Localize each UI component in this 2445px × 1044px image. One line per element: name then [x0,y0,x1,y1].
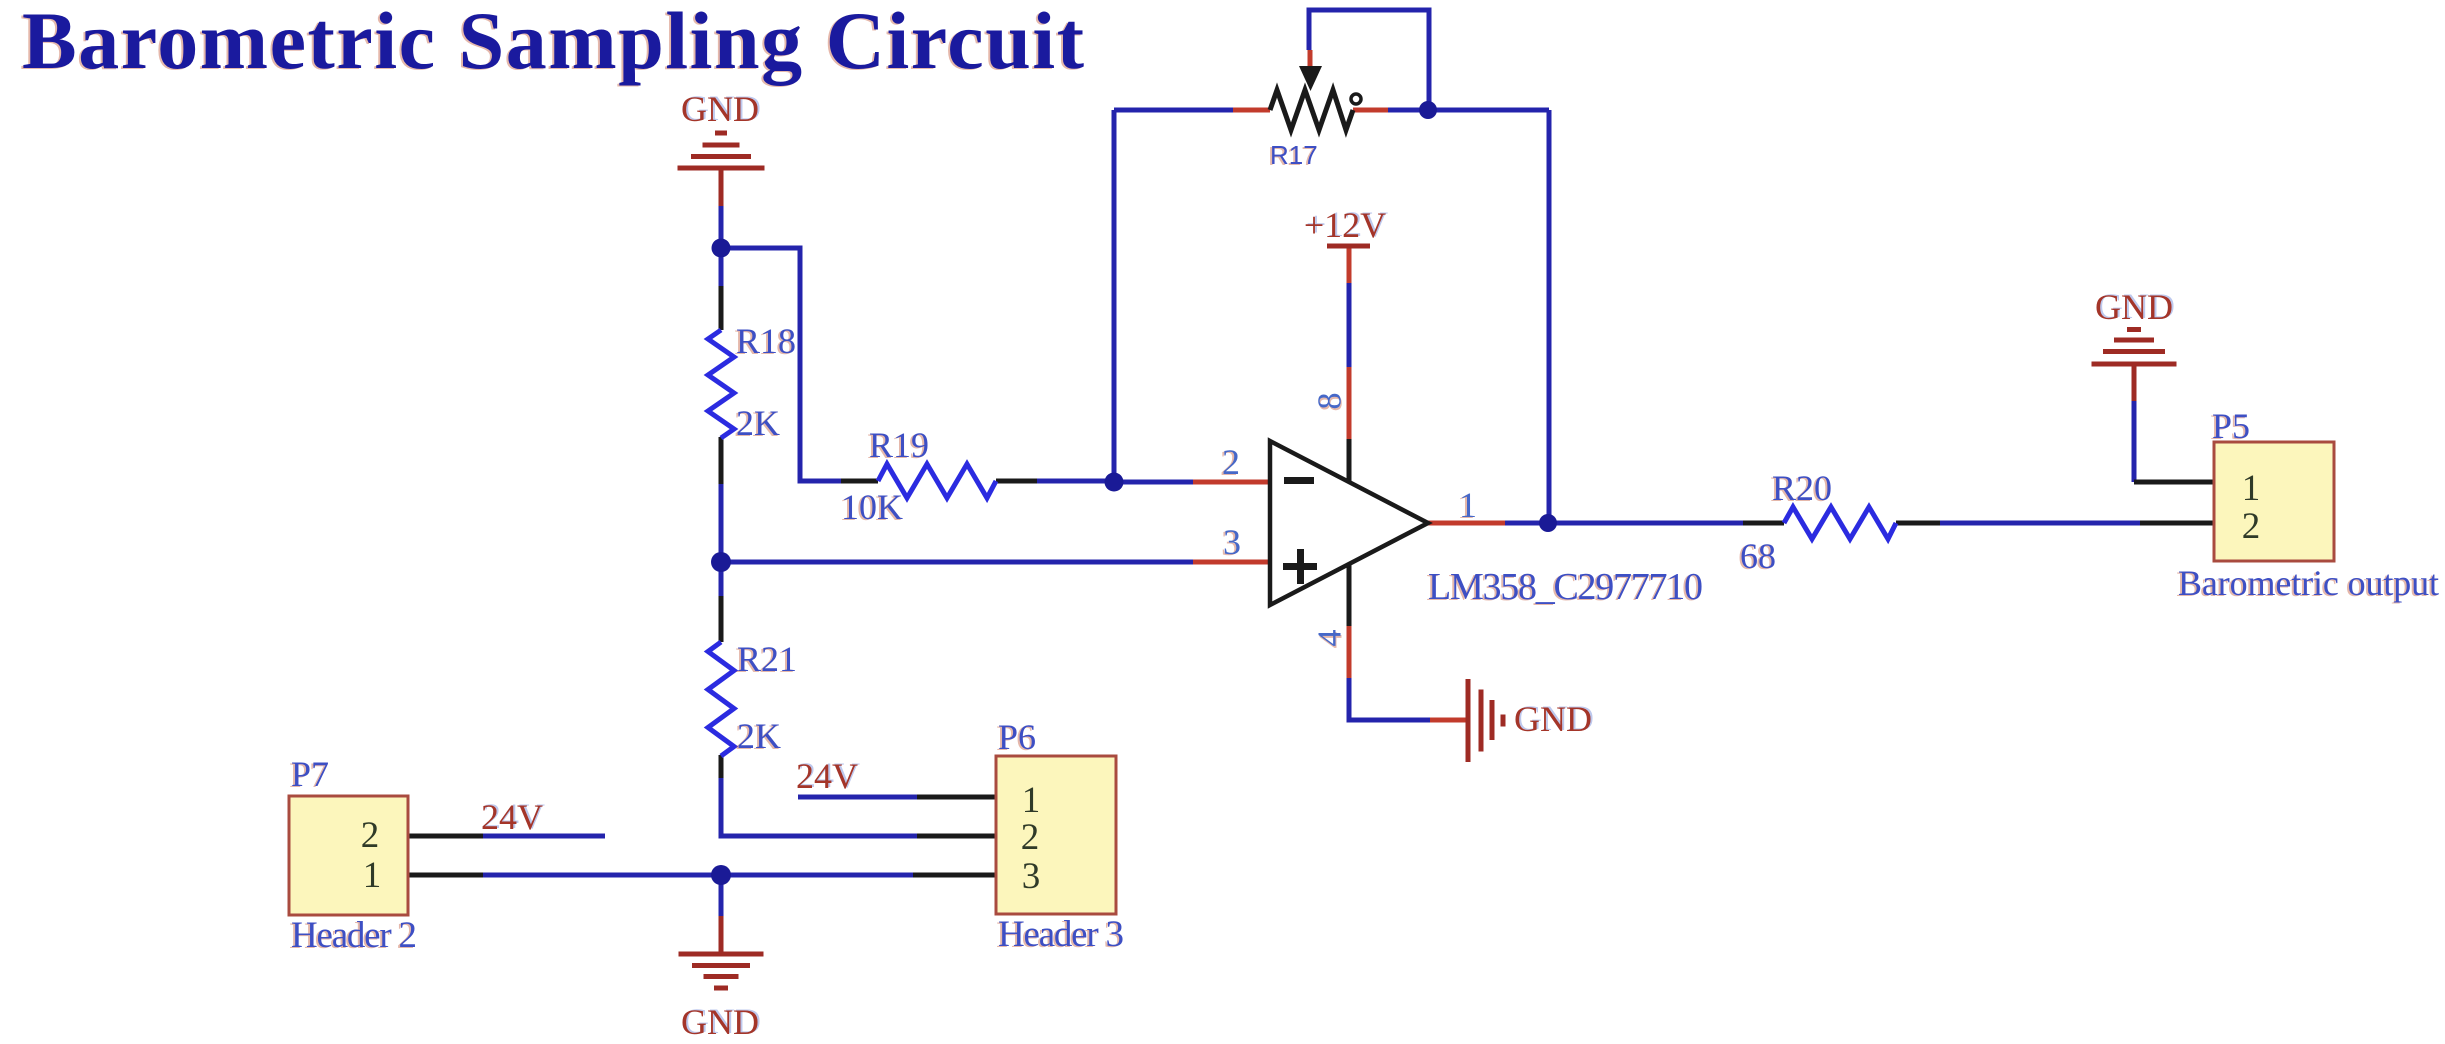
ground GND right [2092,330,2177,402]
wire P7 pin2 24V stub [483,834,605,839]
label P6 [996,717,1036,758]
svg-text:2: 2 [361,815,380,856]
pin number 1 P7 [363,855,382,896]
pin stub black R21 top [719,596,724,642]
resistor R19 10K zigzag [878,464,996,498]
pin stub red op-amp pin2 [1193,480,1270,485]
label R18 [734,321,796,362]
svg-text:GND: GND [2095,287,2173,327]
connector P7 box [289,796,408,915]
wire junction A to corner [721,248,841,481]
wire R19 right to node B [1037,479,1118,484]
svg-text:R18: R18 [736,321,796,361]
ground GND top [678,133,765,206]
label LM358_C2977710 [1426,566,1703,609]
svg-text:Header 3: Header 3 [998,914,1124,955]
pin stub red R17 left [1233,108,1270,113]
pin stub red op-amp pin3 [1193,560,1270,565]
svg-text:Barometric Sampling Circuit: Barometric Sampling Circuit [22,0,1084,86]
potentiometer R17 terminal circle [1351,94,1361,104]
pin stub red op-amp GND [1430,718,1466,723]
junction node A [712,239,731,258]
svg-text:68: 68 [1740,536,1776,576]
label P7 [289,754,329,795]
wire R18 bottom to node C [719,437,724,598]
svg-text:R20: R20 [1772,468,1832,508]
svg-text:2: 2 [1222,442,1240,482]
wire top GND stem blue [719,206,724,252]
pin stub black P6 pin1 [917,795,996,800]
label R20 [1770,468,1832,509]
pin number 1 P6 [1022,780,1041,821]
label 10K R19 [839,487,903,528]
ground GND op-amp sideways [1468,679,1503,762]
label Barometric output [2176,563,2439,604]
pin stub black R21 bottom [719,755,724,778]
net label GND op-amp [1514,698,1594,739]
label 2K R21 [735,716,781,757]
pin number 3 op-amp [1221,522,1241,563]
svg-text:GND: GND [681,89,759,129]
pin number 2 P5 [2242,506,2261,547]
svg-text:24V: 24V [481,797,543,837]
label R17 [1268,140,1318,171]
pin stub red op-amp pin4 [1347,626,1352,678]
pin stub black R19 right [996,479,1037,484]
wire +12V stem blue [1347,283,1352,367]
pin stub black R18 bottom [719,437,724,484]
pin stub black R18 top [719,286,724,330]
net label GND right [2095,286,2175,327]
title Barometric Sampling Circuit [20,0,1084,87]
pin stub black P6 pin2 [917,834,996,839]
svg-text:4: 4 [1312,630,1349,647]
svg-text:1: 1 [2242,468,2261,509]
pin stub red R17 right [1353,108,1388,113]
svg-text:+12V: +12V [1304,205,1386,245]
resistor R20 68 zigzag [1784,507,1896,539]
junction node B [1105,473,1124,492]
wire P6 pin1 24V stub [798,795,917,800]
svg-text:3: 3 [1223,522,1241,562]
wire R17 right to right rail [1388,108,1549,113]
pin number 4 op-amp rotated [1312,630,1350,649]
label P5 [2210,406,2250,447]
pin stub red op-amp pin1 [1428,521,1505,526]
net label 24V P7 [481,796,545,837]
svg-text:2K: 2K [736,403,780,443]
label Header 3 [996,914,1124,956]
svg-text:1: 1 [1459,485,1477,525]
junction node D [711,865,731,885]
label 2K R18 [734,403,780,444]
pin stub black P6 pin3 [913,873,996,878]
label 68 R20 [1738,536,1776,577]
label Header 2 [289,915,417,957]
pin stub black op-amp pin8 [1347,439,1352,481]
svg-text:GND: GND [1514,699,1592,739]
net label GND top [681,88,761,129]
pin stub red R17 wiper [1308,50,1313,66]
svg-text:LM358_C2977710: LM358_C2977710 [1428,566,1703,608]
pin stub black P7 pin1 [408,873,483,878]
wire R17 row left [1114,108,1233,113]
pin stub red +12V upper [1347,246,1352,283]
svg-text:3: 3 [1022,856,1041,897]
power +12V symbol [1327,244,1370,249]
junction node R17 right [1419,101,1437,119]
pin number 2 op-amp [1220,442,1240,483]
svg-text:Header 2: Header 2 [291,915,417,956]
pin stub black R20 left [1743,521,1784,526]
svg-text:24V: 24V [796,756,858,796]
pin number 2 P7 [361,815,380,856]
wire R17 top loop [1309,10,1429,112]
pin stub black R20 right [1896,521,1940,526]
pin stub black R19 left [841,479,878,484]
svg-text:R17: R17 [1270,140,1318,170]
svg-text:R21: R21 [737,639,797,679]
label R19 [867,425,929,466]
svg-text:R19: R19 [869,425,929,465]
pin stub black op-amp pin4 [1347,563,1352,626]
junction node E output [1539,514,1557,532]
pin number 1 P5 [2242,468,2261,509]
wire op-amp pin4 down and right [1349,676,1430,720]
wire right rail down to node E [1547,110,1552,523]
connector P5 box [2214,442,2334,561]
op-amp U1 LM358 triangle [1270,441,1428,605]
potentiometer R17 wiper arrow [1299,66,1322,91]
svg-text:P7: P7 [291,754,329,794]
pin number 2 P6 [1021,817,1040,858]
junction node C [711,552,731,572]
wire vertical R17 left leg [1112,110,1117,486]
pin stub red op-amp pin8 [1347,367,1352,439]
resistor R21 2K zigzag [708,642,734,756]
svg-text:2K: 2K [737,716,781,756]
pin number 8 op-amp rotated [1312,393,1350,412]
net label 24V P6 [796,755,860,796]
pin number 1 op-amp [1457,485,1477,526]
svg-text:2: 2 [2242,506,2261,547]
wire right GND stem blue [2132,401,2137,482]
svg-text:Barometric output: Barometric output [2178,563,2439,603]
pin stub black P7 pin2 [408,834,483,839]
svg-text:10K: 10K [841,487,903,527]
svg-text:1: 1 [1022,780,1041,821]
net label +12V [1304,204,1388,245]
wire node C to op-amp pin3 [721,560,1193,565]
wire node D to bottom GND [719,875,724,918]
net label GND bottom [681,1001,761,1042]
resistor R18 2K zigzag [708,330,734,438]
svg-text:2: 2 [1021,817,1040,858]
wire node B to op-amp pin2 [1114,480,1193,485]
pin number 3 P6 [1022,856,1041,897]
potentiometer R17 zigzag [1270,90,1353,130]
wire R21 bottom corner to P6 pin2 [721,774,917,836]
svg-text:P5: P5 [2212,406,2250,446]
svg-text:GND: GND [681,1002,759,1042]
wire output net node E to R20 [1505,521,1743,526]
svg-text:P6: P6 [998,717,1036,757]
label R21 [735,639,797,680]
pin stub black P5 pin1 [2134,480,2214,485]
ground GND bottom [679,916,764,988]
wire node A down to R18 [719,248,724,288]
wire R20 to P5 pin2 [1940,521,2142,526]
svg-text:8: 8 [1312,393,1349,410]
wire bottom net P7 pin1 to P6 pin3 [483,873,913,878]
pin stub black P5 pin2 [2140,521,2214,526]
svg-text:1: 1 [363,855,382,896]
connector P6 box [996,756,1116,914]
